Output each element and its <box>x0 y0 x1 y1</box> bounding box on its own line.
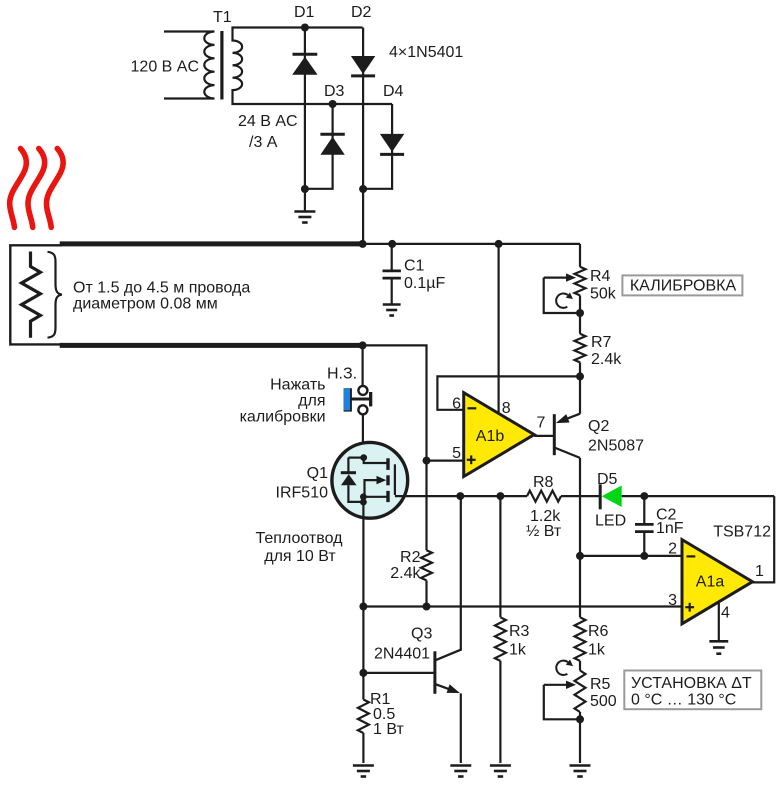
svg-text:1k: 1k <box>588 642 606 659</box>
node rail/pin8 <box>495 240 503 248</box>
svg-text:2N5087: 2N5087 <box>588 438 644 455</box>
svg-text:R7: R7 <box>591 334 612 351</box>
wire R7 to feedback node <box>579 362 581 376</box>
svg-text:1: 1 <box>755 563 764 580</box>
wire D2 branch <box>362 28 364 244</box>
wire to R1 <box>362 673 364 700</box>
Q1 channel bar bottom <box>386 491 389 502</box>
LED D5 cathode bar <box>599 484 602 509</box>
wire button to Q1 drain <box>362 414 364 458</box>
node R4 wiper/bottom <box>576 309 584 317</box>
svg-text:D2: D2 <box>351 4 372 21</box>
wire to ground from D1/D3 <box>304 189 306 212</box>
A1a minus sign <box>687 555 696 557</box>
svg-text:½ Вт: ½ Вт <box>526 523 562 540</box>
svg-text:1k: 1k <box>509 642 527 659</box>
A1b plus sign <box>467 459 476 461</box>
svg-text:Q2: Q2 <box>588 418 609 435</box>
ground (R5) <box>570 764 591 767</box>
heater top rail (thick) <box>60 241 363 246</box>
wire R4 to R7 <box>579 313 581 334</box>
button cap (blue) <box>344 388 352 411</box>
diode D4 <box>380 134 404 152</box>
resistor R7 <box>575 334 586 363</box>
heater bottom rail (thick) <box>60 343 363 348</box>
resistor R6 <box>575 617 586 661</box>
node C2 / pin2 <box>640 552 648 560</box>
wire D1 branch <box>304 28 306 190</box>
transformer T1 secondary winding and leads <box>233 28 393 105</box>
R4 rotation symbol <box>556 293 568 307</box>
R4 wiper arrow <box>544 277 567 279</box>
capacitor C2 upper lead <box>643 496 645 523</box>
node heater bottom rail / button <box>359 341 367 349</box>
node gate wire / R3 <box>496 492 504 500</box>
op-amp A1b <box>464 393 535 477</box>
svg-text:1nF: 1nF <box>656 520 684 537</box>
svg-text:Теплоотвод: Теплоотвод <box>256 530 344 547</box>
node D5/C2 <box>640 492 648 500</box>
diode D2 <box>351 56 375 74</box>
svg-text:LED: LED <box>595 513 626 530</box>
svg-text:T1: T1 <box>213 9 232 26</box>
Q3 base wire <box>363 672 435 674</box>
svg-text:УСТАНОВКА ΔТ: УСТАНОВКА ΔТ <box>631 675 752 692</box>
svg-text:C1: C1 <box>404 258 425 275</box>
svg-text:2.4k: 2.4k <box>390 565 421 582</box>
heat wave 1 <box>10 149 27 228</box>
wire heater bottom to R2 column <box>363 345 427 460</box>
wire R6 to R5 <box>579 661 581 671</box>
transistor Q1 body circle <box>332 442 408 518</box>
svg-text:7: 7 <box>537 415 546 432</box>
R5 wiper arrow <box>544 684 567 686</box>
wire D4 branch <box>363 104 392 189</box>
node R5 bottom/wiper <box>576 715 584 723</box>
capacitor C1 <box>383 269 401 272</box>
svg-text:/3 А: /3 А <box>249 134 278 151</box>
wire Q1 gate to R8 <box>395 495 527 497</box>
heat wave 3 <box>46 149 63 228</box>
heater wire resistance zigzag <box>22 252 41 338</box>
A1b feedback wire <box>437 376 580 409</box>
Q1 source bar wire <box>363 496 386 498</box>
svg-text:50k: 50k <box>590 286 617 303</box>
heater enclosure box <box>10 245 62 344</box>
wire pin3 rail <box>363 605 682 607</box>
svg-text:A1a: A1a <box>696 574 725 591</box>
Q3 collector <box>436 650 461 661</box>
svg-text:D1: D1 <box>294 4 315 21</box>
svg-text:Q1: Q1 <box>307 465 328 482</box>
Q1 drain node <box>360 454 367 461</box>
Q3 base bar <box>433 651 436 694</box>
node: secondary bottom / D3 junction <box>329 100 337 108</box>
node Q1 source / pin3 rail <box>359 603 367 611</box>
svg-text:4×1N5401: 4×1N5401 <box>389 44 463 61</box>
wire heater bottom to button <box>362 345 364 385</box>
resistor R2 <box>421 550 432 580</box>
node R7 / A1b feedback <box>576 372 584 380</box>
Q1 source nodes <box>360 493 367 500</box>
svg-text:2N4401: 2N4401 <box>374 646 430 663</box>
svg-text:R5: R5 <box>590 676 611 693</box>
wire R4 to wiper node <box>579 295 581 313</box>
svg-text:0 °C … 130 °C: 0 °C … 130 °C <box>631 692 736 709</box>
svg-text:500: 500 <box>590 693 617 710</box>
svg-text:24 В AC: 24 В AC <box>238 113 298 130</box>
A1b minus sign <box>468 407 477 409</box>
node source/R1/Q3 base <box>359 669 367 677</box>
node rail/C1 <box>388 240 396 248</box>
button top contact <box>358 386 367 395</box>
Q2 collector wire <box>554 448 580 458</box>
svg-text:диаметром 0.08 мм: диаметром 0.08 мм <box>73 296 218 313</box>
callout box КАЛИБРОВКА <box>622 275 742 295</box>
resistor R1 <box>358 700 369 734</box>
transformer T1 primary winding <box>164 32 215 99</box>
diode D3 <box>320 133 344 136</box>
resistor R3 <box>495 617 506 661</box>
svg-text:R8: R8 <box>533 474 554 491</box>
capacitor C2 lower lead <box>643 533 645 556</box>
wire pin8 from rail <box>498 244 500 414</box>
svg-text:2.4k: 2.4k <box>591 351 622 368</box>
svg-text:Нажать: Нажать <box>270 377 325 394</box>
node: D2/D4 junction <box>359 185 367 193</box>
wire R8 to D5 <box>561 495 600 497</box>
R4 wiper wire <box>544 278 580 313</box>
node R2 / +input rail <box>423 603 431 611</box>
capacitor C1 lead <box>391 244 393 270</box>
svg-text:калибровки: калибровки <box>240 409 326 426</box>
LED D5 triangle <box>602 485 622 507</box>
svg-text:8: 8 <box>502 400 511 417</box>
Q1 drain to channel <box>364 458 387 463</box>
button bridge bar <box>369 392 372 406</box>
svg-text:D5: D5 <box>597 471 618 488</box>
node gate wire / Q3 collector <box>456 492 464 500</box>
op-amp A1a <box>682 540 753 624</box>
node Q2 collector / pin2 <box>576 552 584 560</box>
svg-text:4: 4 <box>721 605 730 622</box>
wire R2 bottom <box>425 580 427 606</box>
wire Q1 source down <box>362 502 364 673</box>
wire R2 column upper <box>425 461 427 551</box>
Q1 body diode branch <box>347 458 349 473</box>
svg-text:D3: D3 <box>324 83 345 100</box>
ground (rectifier) <box>294 210 315 213</box>
Q2 output wire (pin7) <box>534 435 554 437</box>
A1a output wire <box>753 496 775 582</box>
heat wave 2 <box>28 149 45 228</box>
wire pin2 <box>580 555 682 557</box>
wire D3 branch <box>305 104 333 189</box>
potentiometer R4 <box>575 267 586 296</box>
potentiometer R5 <box>575 671 586 713</box>
svg-text:TSB712: TSB712 <box>713 524 771 541</box>
wire pin5 <box>427 460 464 462</box>
svg-text:От 1.5 до 4.5 м провода: От 1.5 до 4.5 м провода <box>73 280 250 297</box>
resistor R8 <box>527 491 561 502</box>
wire rail to R4 <box>579 244 581 267</box>
svg-text:R2: R2 <box>400 549 421 566</box>
svg-text:для: для <box>298 393 325 410</box>
button plunger bar <box>351 398 370 401</box>
svg-text:R4: R4 <box>590 268 611 285</box>
capacitor C2 <box>635 523 654 526</box>
R5 wiper wire <box>544 685 580 720</box>
node rail/D2 <box>359 240 367 248</box>
wire R1 to ground <box>362 733 364 763</box>
svg-text:D4: D4 <box>383 83 404 100</box>
diode D1 <box>293 53 318 56</box>
svg-text:6: 6 <box>452 396 461 413</box>
svg-text:КАЛИБРОВКА: КАЛИБРОВКА <box>630 278 737 295</box>
svg-text:A1b: A1b <box>476 428 505 445</box>
svg-text:R6: R6 <box>588 623 609 640</box>
svg-text:120 В AC: 120 В AC <box>131 59 199 76</box>
ground (R1) <box>353 764 374 767</box>
ground (R3) <box>490 764 511 767</box>
Q1 substrate arrow <box>365 480 378 497</box>
svg-text:Q3: Q3 <box>411 626 432 643</box>
node: D1/D3 junction <box>301 185 309 193</box>
Q1 channel bar top <box>386 458 389 470</box>
Q2 emitter wire <box>579 376 581 413</box>
Q2 base bar <box>553 414 556 455</box>
svg-text:для 10 Вт: для 10 Вт <box>264 548 336 565</box>
svg-text:2: 2 <box>668 541 677 558</box>
R5 rotation symbol <box>556 661 568 675</box>
Q1 gate electrode <box>394 464 396 495</box>
Q1 channel bar middle <box>386 475 389 485</box>
ground (C1) <box>383 303 401 306</box>
transformer T1 core <box>220 31 223 100</box>
svg-text:0.1µF: 0.1µF <box>404 275 445 292</box>
ground (Q3 emitter) <box>450 764 471 767</box>
svg-text:R3: R3 <box>509 623 530 640</box>
svg-text:Н.З.: Н.З. <box>327 366 357 383</box>
Q3 emitter <box>436 684 450 689</box>
node: secondary top / D1 junction <box>301 24 309 32</box>
svg-text:3: 3 <box>668 592 677 609</box>
wire R3 to ground <box>499 661 501 763</box>
callout box УСТАНОВКА ΔТ <box>624 671 761 710</box>
wire supply rail <box>363 243 580 245</box>
A1a plus sign <box>685 606 694 608</box>
A1a pin4 ground wire <box>718 602 720 641</box>
ground (A1a pin 4) <box>709 640 728 643</box>
button bottom contact <box>358 405 367 414</box>
wire pin2 node to R6 <box>579 556 581 617</box>
svg-text:IRF510: IRF510 <box>276 485 329 502</box>
wire gate net to R3 <box>499 496 501 617</box>
svg-text:1 Вт: 1 Вт <box>373 721 404 738</box>
wire R5 to ground <box>579 712 581 763</box>
node pin5/R2 top <box>423 457 431 465</box>
brace for heater note <box>48 252 62 338</box>
wire D5 to C2 node <box>622 495 775 497</box>
svg-text:5: 5 <box>452 445 461 462</box>
capacitor C1 lower lead <box>391 279 393 304</box>
